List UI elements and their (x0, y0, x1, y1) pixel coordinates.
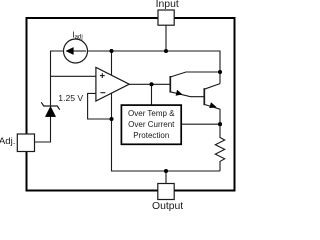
node: output dot (164, 169, 168, 173)
current source Iadj (64, 39, 88, 63)
wire: input terminal drop (165, 25, 167, 51)
Output terminal (158, 184, 174, 200)
wire: op-amp output to Q1 base (129, 83, 170, 85)
node: feedback dot (109, 117, 113, 121)
zener diode 1.25 V (41, 102, 59, 116)
svg-text:Over Current: Over Current (128, 120, 175, 129)
transistor Q2 (204, 84, 220, 110)
svg-text:Output: Output (152, 201, 183, 212)
wire: Q2 emitter rail down to resistor (219, 109, 221, 138)
Adj terminal (17, 134, 34, 152)
IC boundary (27, 18, 235, 191)
node: op-amp output dot (149, 82, 153, 86)
node: Q1 collector dot (218, 70, 222, 74)
wire: feedback line down and output rail (112, 93, 221, 171)
svg-text:Over Temp &: Over Temp & (128, 109, 175, 118)
wire: op-amp supply drop (111, 51, 113, 76)
wire: protection block to sense node (181, 123, 220, 125)
transistor Q1 (170, 72, 220, 97)
wire: input rail from current source to right side (88, 51, 221, 84)
wire: op-amp - input feedback loop (88, 93, 112, 119)
node: input rail dot (164, 49, 168, 53)
svg-text:Adj.: Adj. (0, 136, 15, 147)
wire: output terminal drop (165, 171, 167, 184)
svg-text:Input: Input (156, 0, 179, 10)
wire: drop to protection block (151, 84, 153, 105)
wire: current source left lead down to zener cathode (51, 51, 64, 106)
svg-text:Protection: Protection (133, 131, 169, 140)
wire: reference node to op-amp + input (51, 75, 96, 77)
node: supply dot at op-amp (109, 49, 113, 53)
node: sense dot (218, 122, 222, 126)
svg-text:Iadj: Iadj (72, 29, 82, 40)
op-amp U1 (96, 67, 129, 101)
resistor R (current sense) (215, 138, 224, 172)
protection block (121, 105, 181, 144)
Input terminal (158, 10, 174, 25)
wire: adj terminal to zener anode (35, 117, 51, 143)
svg-text:1.25 V: 1.25 V (58, 93, 83, 103)
